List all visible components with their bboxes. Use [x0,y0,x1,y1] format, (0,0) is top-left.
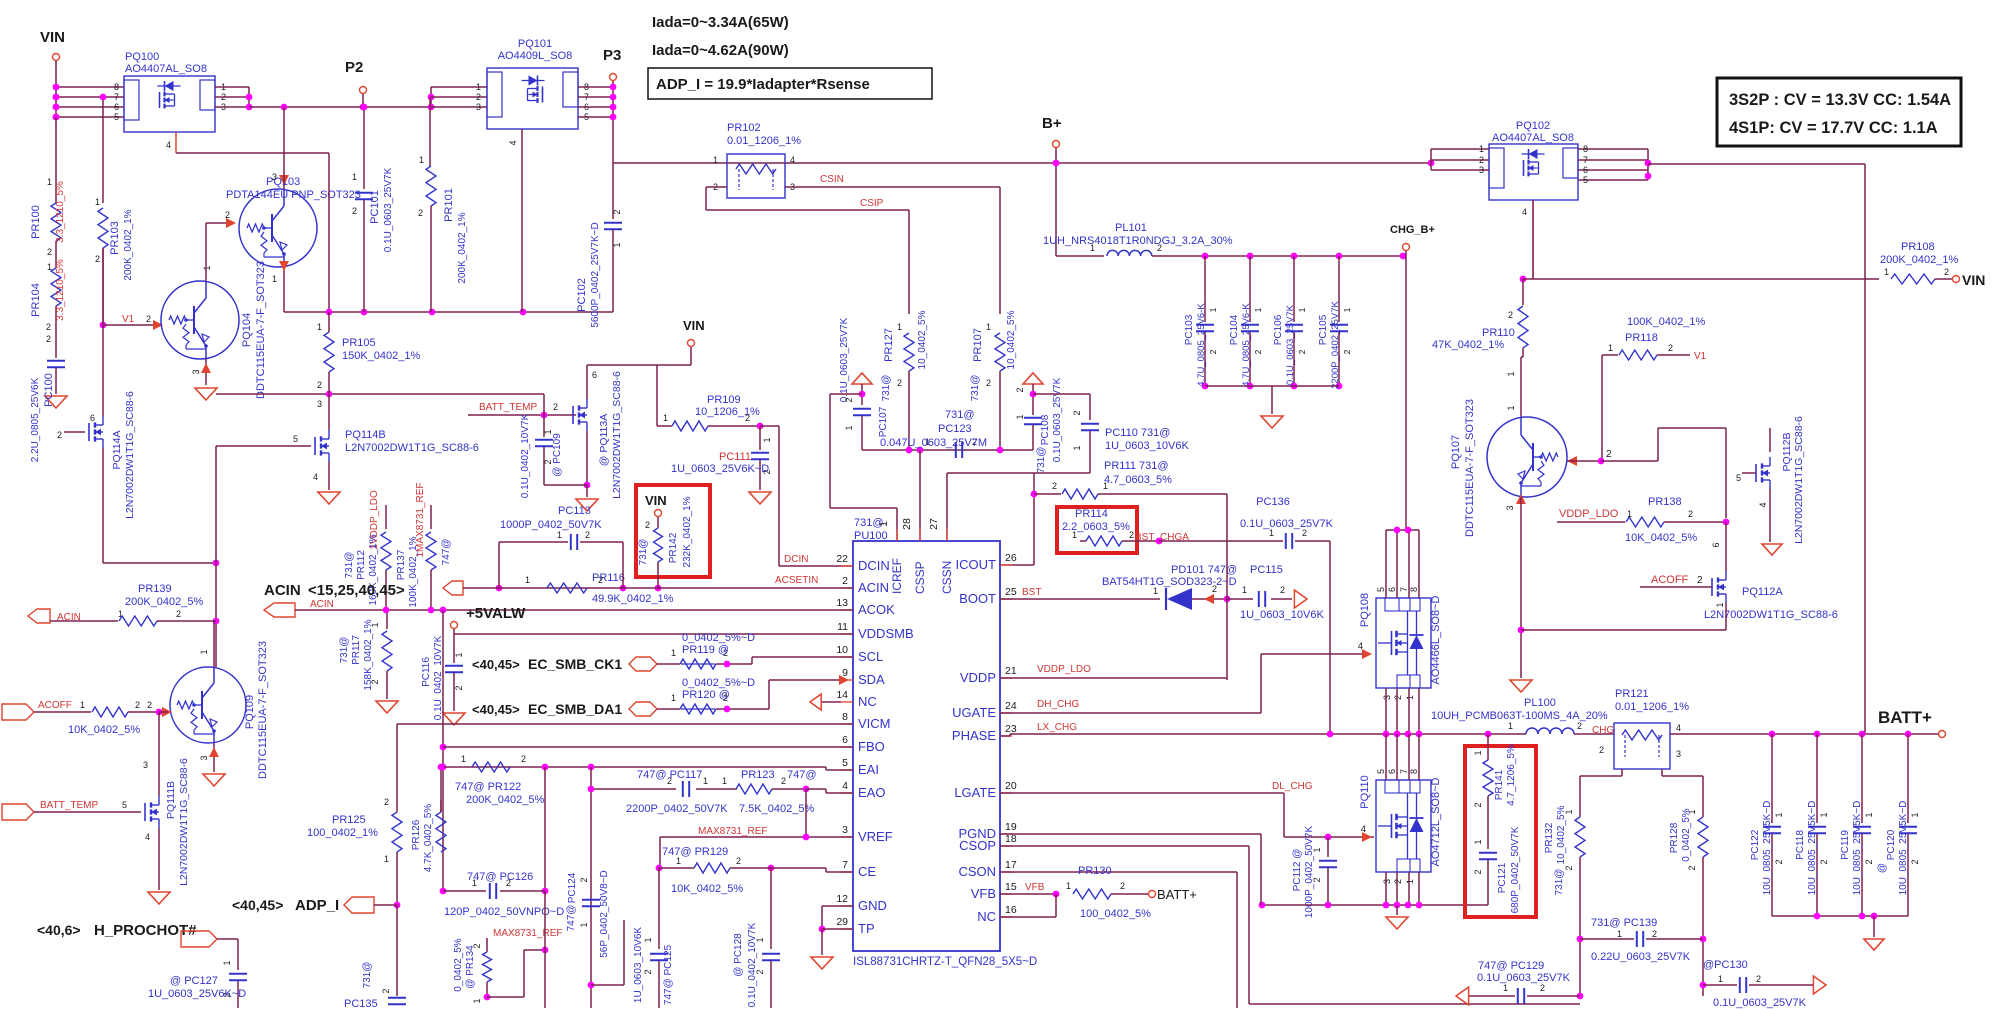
svg-text:1: 1 [676,856,681,866]
svg-text:1: 1 [579,922,589,927]
svg-text:1: 1 [1405,695,1415,700]
svg-text:PR100: PR100 [30,205,42,239]
svg-text:2: 2 [543,459,553,464]
svg-text:AO4409L_SO8: AO4409L_SO8 [498,50,573,62]
svg-text:<40,6>: <40,6> [37,922,81,938]
svg-text:2: 2 [1208,349,1218,354]
svg-text:PR101: PR101 [443,188,455,222]
svg-text:5: 5 [1736,473,1741,483]
svg-text:@ PC127: @ PC127 [170,975,218,987]
svg-text:232K_0402_1%: 232K_0402_1% [682,496,693,567]
svg-text:25: 25 [1005,586,1017,598]
svg-text:4: 4 [313,472,318,482]
svg-text:15: 15 [1005,881,1017,893]
svg-text:56P_0402_50V8~D: 56P_0402_50V8~D [599,870,610,958]
svg-text:2: 2 [1864,859,1874,864]
svg-text:PR128: PR128 [1669,822,1680,853]
svg-text:2: 2 [225,210,230,220]
svg-text:L2N7002DW1T1G_SC88-6: L2N7002DW1T1G_SC88-6 [1793,416,1805,544]
svg-text:ACOK: ACOK [858,602,895,617]
svg-text:PR110: PR110 [1482,327,1515,339]
svg-text:DDTC115EUA-7-F_SOT323: DDTC115EUA-7-F_SOT323 [1464,399,1476,537]
svg-text:PC112 @: PC112 @ [1292,849,1303,892]
svg-text:PQ111B: PQ111B [165,781,177,819]
svg-text:2: 2 [598,575,603,585]
svg-text:AO4407AL_SO8: AO4407AL_SO8 [1492,132,1574,144]
svg-text:747@: 747@ [566,905,577,932]
svg-text:1: 1 [1506,371,1516,376]
svg-text:18: 18 [1005,833,1017,845]
svg-text:V1: V1 [1694,351,1707,362]
svg-text:0.1U_0603_25V7K: 0.1U_0603_25V7K [1052,377,1063,462]
svg-text:DDTC115EUA-7-F_SOT323: DDTC115EUA-7-F_SOT323 [255,261,267,399]
svg-text:PC135: PC135 [344,998,378,1009]
svg-text:ACIN: ACIN [264,582,301,599]
svg-text:10U_0805_25V5K~D: 10U_0805_25V5K~D [1807,801,1818,896]
svg-text:2: 2 [370,679,380,684]
svg-text:1: 1 [543,429,553,434]
svg-text:L2N7002DW1T1G_SC88-6: L2N7002DW1T1G_SC88-6 [124,391,136,519]
svg-text:L2N7002DW1T1G_SC88-6: L2N7002DW1T1G_SC88-6 [611,371,623,499]
svg-text:2: 2 [1652,929,1657,939]
svg-text:1: 1 [1072,445,1082,450]
svg-text:CE: CE [858,864,876,879]
svg-text:1: 1 [525,575,530,585]
svg-text:4: 4 [790,155,795,165]
svg-text:10: 10 [836,644,848,656]
svg-text:ICREF: ICREF [890,558,904,594]
svg-text:731@ PC139: 731@ PC139 [1591,917,1657,929]
svg-text:1: 1 [755,937,765,942]
svg-text:CHG: CHG [1592,725,1614,736]
svg-text:2: 2 [1910,859,1920,864]
svg-text:BATT_TEMP: BATT_TEMP [40,800,98,811]
svg-text:1U_0603_10V6K: 1U_0603_10V6K [1105,440,1189,452]
svg-text:PQ104: PQ104 [241,313,253,347]
svg-text:11: 11 [837,621,848,633]
svg-text:2: 2 [1697,575,1703,586]
svg-text:2.2U_0805_25V6K: 2.2U_0805_25V6K [30,377,41,462]
svg-text:2: 2 [506,878,511,888]
svg-text:MAX8731_REF: MAX8731_REF [698,826,767,837]
svg-text:2: 2 [736,856,741,866]
svg-text:2: 2 [612,209,622,214]
svg-text:3: 3 [199,755,209,760]
svg-text:23: 23 [1005,723,1017,735]
svg-text:1: 1 [476,82,481,92]
svg-text:7.5K_0402_5%: 7.5K_0402_5% [739,803,814,815]
svg-text:2: 2 [146,314,151,324]
svg-text:3: 3 [143,760,148,770]
svg-text:@ PR134: @ PR134 [465,945,476,989]
svg-text:+5VALW: +5VALW [466,605,526,622]
svg-text:UGATE: UGATE [952,705,996,720]
svg-text:BAT54HT1G_SOD323-2~D: BAT54HT1G_SOD323-2~D [1102,576,1237,588]
svg-text:@ PC128: @ PC128 [733,933,744,977]
svg-text:5600P_0402_25V7K~D: 5600P_0402_25V7K~D [590,222,601,327]
svg-text:Iada=0~4.62A(90W): Iada=0~4.62A(90W) [652,42,789,59]
svg-text:PR107: PR107 [972,328,984,362]
svg-text:100K_0402_1%: 100K_0402_1% [408,536,419,607]
svg-text:1: 1 [1503,983,1508,993]
svg-text:731@: 731@ [344,552,355,579]
svg-text:PR123: PR123 [741,769,775,781]
svg-text:GND: GND [858,898,887,913]
svg-text:1: 1 [878,521,890,527]
svg-text:4.7_0603_5%: 4.7_0603_5% [1104,474,1172,486]
svg-text:BST: BST [1022,587,1041,598]
svg-text:1: 1 [352,172,357,182]
svg-text:0.01_1206_1%: 0.01_1206_1% [727,135,801,147]
svg-text:29: 29 [836,916,848,928]
svg-text:PR137: PR137 [396,549,407,580]
svg-text:1: 1 [199,649,209,654]
svg-text:2: 2 [1540,983,1545,993]
svg-text:2: 2 [553,402,558,412]
svg-text:ADP_I: ADP_I [295,897,339,914]
svg-text:0.1U_0603_25V7K: 0.1U_0603_25V7K [1240,518,1334,530]
svg-text:21: 21 [1005,665,1017,677]
svg-text:0_0402_5%: 0_0402_5% [453,938,464,991]
svg-text:2: 2 [645,520,650,530]
svg-text:<15,25,40,45>: <15,25,40,45> [308,582,405,599]
svg-text:PC120: PC120 [1886,829,1897,860]
svg-text:14: 14 [836,689,848,701]
svg-text:6: 6 [842,734,848,746]
svg-text:10_1206_1%: 10_1206_1% [695,406,760,418]
svg-text:PR139: PR139 [138,583,172,595]
svg-text:5: 5 [842,757,848,769]
svg-text:4.7U_0805_25V6-K: 4.7U_0805_25V6-K [1241,303,1252,387]
svg-text:TP: TP [858,921,875,936]
svg-text:4: 4 [1522,207,1527,217]
svg-text:VDDP: VDDP [960,670,996,685]
svg-text:VIN: VIN [1962,272,1985,288]
svg-text:3: 3 [476,102,481,112]
svg-text:0.01_1206_1%: 0.01_1206_1% [1615,701,1689,713]
svg-text:2: 2 [1688,509,1693,519]
svg-text:0.1U_0603_25V7K: 0.1U_0603_25V7K [839,317,850,402]
svg-text:2200P_0402_50V7K: 2200P_0402_50V7K [626,803,728,815]
svg-text:2: 2 [1756,974,1761,984]
svg-text:731@: 731@ [945,409,975,421]
svg-text:2: 2 [1564,865,1574,870]
svg-text:2: 2 [1668,343,1673,353]
svg-text:2: 2 [1393,695,1403,700]
svg-text:PQ102: PQ102 [1516,120,1550,132]
svg-text:8: 8 [114,82,119,92]
svg-text:3: 3 [1382,879,1392,884]
svg-text:SCL: SCL [858,649,883,664]
svg-text:PHASE: PHASE [952,728,996,743]
svg-text:1: 1 [95,197,100,207]
svg-text:16: 16 [1005,904,1017,916]
svg-text:5: 5 [293,434,298,444]
svg-text:2: 2 [1606,449,1612,460]
svg-text:0_0402_5%~D: 0_0402_5%~D [682,632,755,644]
svg-text:2: 2 [317,380,322,390]
svg-text:6: 6 [114,102,119,112]
svg-text:200K_0402_1%: 200K_0402_1% [1880,254,1959,266]
svg-text:6: 6 [90,413,95,423]
svg-text:2: 2 [1342,349,1352,354]
svg-text:2: 2 [1599,745,1604,755]
svg-text:0_0402_5%~D: 0_0402_5%~D [682,677,755,689]
svg-text:PQ114A: PQ114A [111,431,123,470]
svg-text:VDDP_LDO: VDDP_LDO [1037,664,1091,675]
svg-text:PC108: PC108 [1040,414,1051,445]
svg-text:2: 2 [1577,721,1582,731]
svg-text:VFB: VFB [971,886,996,901]
svg-text:7: 7 [842,859,848,871]
svg-text:731@: 731@ [339,637,350,664]
svg-text:1: 1 [1342,307,1352,312]
svg-text:DL_CHG: DL_CHG [1272,781,1313,792]
svg-text:2: 2 [1508,310,1513,320]
svg-text:0.047U_0603_25V7M: 0.047U_0603_25V7M [880,437,987,449]
svg-text:2: 2 [1052,481,1057,491]
svg-text:LX_CHG: LX_CHG [1037,722,1077,733]
svg-text:PL100: PL100 [1524,697,1556,709]
svg-text:731@: 731@ [881,375,892,402]
svg-text:PC122: PC122 [1750,829,1761,860]
svg-text:VDDP_LDO: VDDP_LDO [1559,508,1619,520]
svg-text:VIN: VIN [40,29,65,46]
svg-text:731@: 731@ [970,375,981,402]
svg-text:4S1P: CV = 17.7V CC: 1.1A: 4S1P: CV = 17.7V CC: 1.1A [1729,119,1938,137]
svg-text:19: 19 [1005,821,1017,833]
svg-text:PC106: PC106 [1273,314,1284,345]
svg-text:2: 2 [1473,802,1483,807]
svg-text:0.1U_0603_25V7K: 0.1U_0603_25V7K [383,167,394,252]
svg-text:BATT+: BATT+ [1157,887,1197,902]
svg-text:<40,45>: <40,45> [232,897,283,913]
svg-text:EC_SMB_DA1: EC_SMB_DA1 [528,701,622,717]
svg-text:4: 4 [1358,641,1363,652]
svg-text:2: 2 [1072,410,1082,415]
svg-text:1: 1 [762,437,772,442]
svg-text:1: 1 [222,960,232,965]
svg-text:ACIN: ACIN [858,580,889,595]
svg-text:13: 13 [836,597,848,609]
svg-text:2: 2 [352,206,357,216]
svg-text:100K_0402_1%: 100K_0402_1% [1627,316,1706,328]
svg-text:PC136: PC136 [1256,496,1290,508]
svg-text:PQ109: PQ109 [244,695,256,729]
svg-text:PC102: PC102 [576,278,588,312]
svg-text:CSIN: CSIN [820,174,844,185]
svg-text:49.9K_0402_1%: 49.9K_0402_1% [592,593,674,605]
svg-text:6: 6 [1583,165,1588,175]
svg-text:MAX8731_REF: MAX8731_REF [493,928,562,939]
svg-text:0.1U_0603_25V7K: 0.1U_0603_25V7K [1713,997,1807,1009]
svg-text:1: 1 [1884,267,1889,277]
svg-text:BATT_TEMP: BATT_TEMP [479,402,537,413]
svg-text:PC123: PC123 [938,423,972,435]
svg-text:3: 3 [1505,505,1515,510]
svg-text:PR103: PR103 [109,221,121,255]
svg-text:2: 2 [1687,865,1697,870]
svg-text:7: 7 [114,92,119,102]
svg-text:PC116: PC116 [421,657,432,687]
svg-text:P3: P3 [603,47,621,64]
svg-text:1U_0603_10V6K: 1U_0603_10V6K [1240,609,1324,621]
svg-text:1: 1 [1312,847,1322,852]
svg-text:PR116: PR116 [592,572,625,584]
svg-text:CSIP: CSIP [860,198,884,209]
svg-text:7: 7 [1399,587,1409,592]
svg-text:2: 2 [897,378,902,388]
svg-text:PQ101: PQ101 [518,38,552,50]
svg-text:5: 5 [114,112,119,122]
svg-text:PC104: PC104 [1229,314,1240,345]
svg-text:BOOT: BOOT [959,591,996,606]
svg-text:PC119: PC119 [1840,830,1851,860]
svg-text:3.3_1210_5%: 3.3_1210_5% [55,259,66,321]
svg-text:AO4466L_SO8~D: AO4466L_SO8~D [1430,595,1442,684]
svg-text:ACSETIN: ACSETIN [775,575,818,586]
svg-text:PC113: PC113 [558,505,591,517]
svg-text:731@: 731@ [1554,869,1565,896]
svg-text:1: 1 [272,274,277,284]
svg-text:2: 2 [1479,155,1484,165]
svg-text:2: 2 [135,700,140,710]
svg-text:NC: NC [858,694,877,709]
svg-text:2: 2 [842,575,848,587]
svg-text:1: 1 [722,776,727,786]
svg-text:24: 24 [1005,700,1017,712]
svg-text:DH_CHG: DH_CHG [1037,699,1079,710]
svg-text:1: 1 [1479,144,1484,154]
svg-text:PR102: PR102 [727,122,761,134]
svg-text:EAI: EAI [858,762,879,777]
svg-text:3: 3 [1676,749,1681,759]
svg-text:2: 2 [1393,879,1403,884]
svg-text:2: 2 [381,988,391,993]
svg-text:4: 4 [1758,502,1768,507]
svg-text:2: 2 [1015,387,1025,392]
svg-text:47K_0402_1%: 47K_0402_1% [1432,339,1504,351]
svg-text:1: 1 [1564,809,1574,814]
svg-text:1: 1 [671,648,676,658]
svg-text:2: 2 [1297,349,1307,354]
svg-text:1UH_NRS4018T1R0NDGJ_3.2A_30%: 1UH_NRS4018T1R0NDGJ_3.2A_30% [1043,235,1233,247]
svg-text:22: 22 [836,553,848,565]
svg-text:1: 1 [47,262,52,272]
svg-text:3: 3 [272,172,277,182]
svg-text:6: 6 [592,370,597,380]
svg-text:150K_0402_1%: 150K_0402_1% [342,350,421,362]
svg-text:2: 2 [46,322,51,332]
svg-text:<40,45>: <40,45> [472,657,520,672]
svg-text:L2N7002DW1T1G_SC88-6: L2N7002DW1T1G_SC88-6 [345,442,479,454]
svg-text:1: 1 [1297,307,1307,312]
svg-text:1: 1 [844,425,854,430]
svg-text:NC: NC [977,909,996,924]
svg-text:Iada=0~3.34A(65W): Iada=0~3.34A(65W) [652,14,789,31]
svg-text:4: 4 [1676,723,1681,733]
svg-text:4: 4 [508,140,518,145]
svg-text:@PC130: @PC130 [1703,959,1748,971]
svg-text:L2N7002DW1T1G_SC88-6: L2N7002DW1T1G_SC88-6 [178,758,190,886]
svg-text:1: 1 [1253,307,1263,312]
svg-text:747@ PR129: 747@ PR129 [662,846,728,858]
svg-text:PR121: PR121 [1615,688,1649,700]
svg-text:1: 1 [202,265,212,270]
svg-text:@ PC109: @ PC109 [552,433,563,477]
svg-text:6: 6 [1711,542,1721,547]
svg-text:2: 2 [476,92,481,102]
svg-text:731@: 731@ [638,539,649,566]
svg-text:2: 2 [1774,859,1784,864]
svg-text:4.7U_0805_25V6-K: 4.7U_0805_25V6-K [1196,303,1207,387]
svg-text:6: 6 [1387,587,1397,592]
svg-text:2: 2 [781,776,786,786]
svg-text:1: 1 [663,413,668,423]
svg-text:2: 2 [745,413,750,423]
svg-text:2: 2 [585,530,590,540]
svg-text:2: 2 [472,943,482,948]
svg-text:CHG_B+: CHG_B+ [1390,224,1435,236]
svg-text:120P_0402_50VNPO~D: 120P_0402_50VNPO~D [444,906,564,918]
svg-text:2: 2 [762,469,772,474]
svg-text:@ PQ113A: @ PQ113A [598,414,610,467]
svg-text:CSOP: CSOP [959,838,996,853]
svg-text:1: 1 [703,776,708,786]
svg-text:AO4407AL_SO8: AO4407AL_SO8 [125,63,207,75]
svg-text:VIN: VIN [645,493,667,508]
svg-text:PL101: PL101 [1115,222,1147,234]
svg-text:2: 2 [1253,349,1263,354]
svg-text:2: 2 [1819,859,1829,864]
svg-text:0.1U_0603_25V7K: 0.1U_0603_25V7K [1285,304,1296,385]
svg-text:2: 2 [384,797,389,807]
svg-text:PR120 @: PR120 @ [682,689,730,701]
svg-text:PQ100: PQ100 [125,51,159,63]
svg-text:2: 2 [1473,869,1483,874]
svg-text:1: 1 [317,322,322,332]
svg-text:PC121: PC121 [1497,862,1508,893]
svg-text:1: 1 [472,878,477,888]
svg-text:6: 6 [1387,769,1397,774]
svg-text:PQ112A: PQ112A [1742,586,1783,598]
svg-text:CSON: CSON [958,864,996,879]
svg-text:PR127: PR127 [883,328,895,362]
svg-text:747@ PC129: 747@ PC129 [1478,960,1544,972]
svg-text:PR117: PR117 [351,635,362,665]
svg-text:2: 2 [643,969,653,974]
svg-text:PC124: PC124 [567,872,578,903]
svg-text:7: 7 [1399,769,1409,774]
svg-text:PC111: PC111 [719,451,751,463]
svg-text:1: 1 [80,700,85,710]
svg-text:3: 3 [842,824,848,836]
svg-text:5: 5 [122,800,127,810]
svg-text:2: 2 [1944,267,1949,277]
svg-text:2: 2 [1280,585,1285,595]
svg-text:0_0402_5%: 0_0402_5% [1681,808,1692,861]
svg-text:1: 1 [370,622,380,627]
svg-text:200K_0402_5%: 200K_0402_5% [466,794,545,806]
svg-text:3S2P : CV = 13.3V CC: 1.54A: 3S2P : CV = 13.3V CC: 1.54A [1729,91,1951,109]
svg-text:2: 2 [1120,881,1125,891]
svg-text:27: 27 [928,518,940,530]
svg-text:10U_0805_25V5K~D: 10U_0805_25V5K~D [1852,801,1863,896]
svg-text:1: 1 [1405,879,1415,884]
svg-text:ACOFF: ACOFF [38,700,72,711]
svg-text:2: 2 [147,700,152,710]
svg-text:4: 4 [842,780,848,792]
